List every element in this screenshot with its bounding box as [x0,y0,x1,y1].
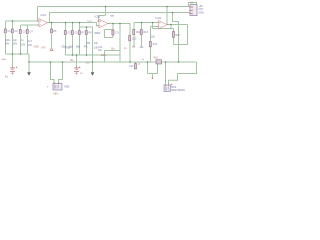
svg-text:GND: GND [64,86,70,89]
resistor R14 [149,36,158,47]
wire C10 top [129,24,131,36]
capacitor C5 [64,31,71,35]
wire U2 feedback left side [104,30,106,38]
wire end stub [152,77,154,79]
svg-text:22k: 22k [140,46,145,49]
resistor R13 [140,30,148,35]
wire ground rail [29,61,197,63]
ground left [27,72,31,75]
junction node bus A U3 out [166,6,168,8]
wire mid net 2 [80,26,93,28]
wire C5 top [65,23,67,31]
wire C9 bottom stub [112,35,114,38]
svg-text:IC1B: IC1B [95,15,101,19]
svg-text:10k: 10k [132,45,137,48]
wire ground drop left [28,54,30,72]
svg-text:C10: C10 [132,38,137,41]
svg-text:GND: GND [199,11,205,14]
svg-text:10u: 10u [111,47,116,50]
svg-text:1u: 1u [138,63,141,66]
wire R14 bottom to rail [150,47,152,62]
capacitor C9 feedback [112,30,119,35]
svg-text:4u7: 4u7 [28,40,33,43]
wire U2 inv into amp [98,16,101,22]
op-amp U2 [95,15,110,28]
svg-text:VREF: VREF [65,47,72,50]
battery B2 [71,59,84,75]
wire C7 top [79,27,81,31]
svg-text:GND: GND [1,59,6,61]
capacitor C3 [19,30,26,34]
svg-text:16V: 16V [21,43,26,46]
svg-text:C2: C2 [15,30,19,33]
wire U3 output riser to bus A [166,7,168,25]
junction node stage3 net [141,22,143,24]
svg-text:MD9745APA: MD9745APA [171,89,185,92]
svg-text:R13: R13 [144,31,149,34]
capacitor C4 [26,30,33,34]
wire right big loop [169,62,197,85]
wire U2 inv horizontal [99,15,106,17]
wire R14 top [150,27,152,42]
wire R5 top [51,23,53,30]
svg-text:R8: R8 [89,32,93,35]
wire C4 top [27,25,29,30]
wire R15 top stub [173,29,175,32]
wire left net 1 horizontal [6,20,40,22]
junction node net2 x86 [86,26,88,28]
wire R15 top [170,25,172,29]
wire right small loop bottom [148,73,158,75]
svg-text:1u: 1u [21,39,24,42]
svg-text:C11: C11 [129,65,134,68]
junction node rail1 x86 [86,54,88,56]
resistor R5 [50,29,57,33]
wire R5 bottom [51,34,53,47]
svg-text:B2: B2 [71,59,75,62]
wire mic1 right riser [59,62,63,84]
wire U3 feedback bottom [174,44,188,46]
svg-text:C6: C6 [75,32,79,35]
svg-text:R7: R7 [82,32,86,35]
wire C10 bottom to rail [129,42,131,63]
junction node rail gnd2 [92,61,94,63]
svg-text:47k: 47k [84,46,89,49]
wire bus A top [38,6,192,8]
ground mid [85,63,94,76]
wire mic2 left pin riser [165,62,167,85]
wire C2 top [12,21,14,29]
wire right small loop left [147,62,149,74]
supply +9V arrow [41,47,53,51]
op-amp U3 [156,16,169,29]
wire gnd descender right [173,13,179,63]
op-amp U1 [37,13,49,27]
wire C9 top stub [112,24,114,31]
wire mid lower box right [119,51,121,63]
wire left bottom rail [6,53,30,55]
svg-text:MK1: MK1 [54,92,60,95]
wire C3 bottom [20,35,22,55]
junction node bus B gnd tap [172,12,174,14]
resistor R7 [78,31,85,35]
svg-text:100n: 100n [101,54,107,57]
svg-text:C9: C9 [116,32,120,35]
svg-text:1n: 1n [142,59,145,61]
junction node rail x178 [178,61,180,63]
svg-text:10u: 10u [98,49,103,52]
svg-text:R5: R5 [53,30,57,33]
wire C5 bottom [65,35,67,55]
resistor R16 on rail [154,57,162,64]
wire bus B [50,12,192,14]
capacitor C6 [71,31,78,35]
wire C1 top [5,21,7,29]
wire over connector loop [189,3,197,7]
svg-text:16V: 16V [28,44,33,47]
svg-text:R15: R15 [176,34,181,37]
svg-text:IC1A: IC1A [41,13,47,17]
wire R13 top [141,23,143,30]
svg-text:GND: GND [85,63,90,65]
svg-text:C1: C1 [8,30,12,33]
svg-text:C3: C3 [23,31,27,34]
connector X1 [189,2,204,16]
wire C6 top [72,23,74,31]
wire right small loop right [157,62,159,74]
wire C6 bottom [72,35,74,55]
wire U2 feedback bottom [105,37,114,39]
svg-text:10k: 10k [94,42,99,45]
capacitor C2 [11,29,18,33]
wire battery B1 feed [12,54,14,67]
svg-text:50V: 50V [13,43,18,46]
wire right stub [152,74,154,79]
junction node rail bat2 [76,54,78,56]
junction node U3 inv [152,22,154,24]
wire C8 top [86,27,88,31]
capacitor C11 [129,63,141,70]
svg-text:R16: R16 [154,57,159,60]
junction node rail mic1b [62,61,64,63]
wire C1 bottom [5,34,7,54]
microphone MK1 [47,83,70,96]
wire R12 bottom [133,35,135,47]
svg-text:N$8: N$8 [110,15,115,17]
wire U1 inverting input riser [37,7,39,22]
wire mid lower box left [104,51,106,63]
capacitor C10 [129,36,137,41]
junction node gnd rail left [28,61,30,63]
svg-text:R14: R14 [153,43,158,46]
wire stage3 input net [134,22,159,24]
svg-text:9V: 9V [80,73,83,75]
wire U2 output [108,23,130,25]
wire C2 bottom [12,34,14,54]
svg-text:IC2A: IC2A [156,16,162,20]
junction node left rail x20 [20,53,22,55]
wire U3 plus input [151,26,159,28]
junction node C5 tap [65,22,67,24]
wire U1 output riser to bus B [49,13,51,23]
wire U3 feedback lower [153,28,174,30]
junction node U2 drop [119,23,121,25]
wire left net 2 horizontal [21,24,40,26]
junction node rail mic2 [165,61,167,63]
svg-text:GND: GND [34,46,40,49]
junction node bus A U2 [105,6,107,8]
svg-text:C5: C5 [68,32,72,35]
wire R8 bottom [86,35,88,55]
wire mid net2 feed [79,23,81,28]
junction node U2 out [112,23,114,25]
svg-text:v: v [47,86,49,89]
wire R7 bottom [79,35,81,55]
junction node U3 out [170,24,172,26]
junction node C6 tap [72,22,74,24]
wire U2 inv drop from bus A [105,7,107,16]
svg-text:N$10: N$10 [87,21,93,23]
wire C4 bottom [27,35,29,55]
junction node left rail x12 [12,53,14,55]
microphone MK2 [164,80,185,92]
wire vref rail [66,54,121,56]
resistor R12 [133,30,141,35]
junction node rail x147 [147,61,149,63]
wire C11 drop [135,62,137,64]
wire U3 output [167,24,188,26]
resistor R15 feedback [172,32,180,38]
svg-text:C4: C4 [30,31,34,34]
junction node rail C10 [129,61,131,63]
junction node rail mic1 [50,61,52,63]
wire U2 plus jog [97,23,100,26]
wire U3 inv drop [152,23,154,29]
svg-text:1k0: 1k0 [151,36,156,39]
wire divider column mid [92,27,94,72]
junction node U1 out / bus B [51,22,53,24]
wire battery B2 feed [76,55,78,67]
svg-text:R9: R9 [87,42,91,45]
wire U2 feedback top [105,29,114,31]
wire mid lower box top [105,50,121,52]
battery B1 [5,67,17,79]
wire U2 out drop [119,24,121,51]
wire C3 top [20,25,22,30]
wire R12 top [133,23,135,30]
resistor R8 [85,31,92,35]
wire U3 feedback right [187,25,189,45]
svg-text:VREF: VREF [94,32,101,35]
wire U1 output net [48,22,97,24]
wire R13 bottom [141,35,143,47]
wire R15 bottom [173,37,175,44]
svg-text:B1: B1 [5,76,9,79]
capacitor C1 [4,29,11,33]
svg-text:1u: 1u [124,47,127,50]
svg-text:+9V: +9V [41,47,46,50]
wire mic1 left pin riser [51,62,55,84]
svg-text:50V: 50V [5,43,10,46]
junction node C2 left net [12,20,14,22]
junction node rail1 x72 [72,54,74,56]
svg-text:6k8: 6k8 [76,46,81,49]
junction node mid net2 tap [79,22,81,24]
